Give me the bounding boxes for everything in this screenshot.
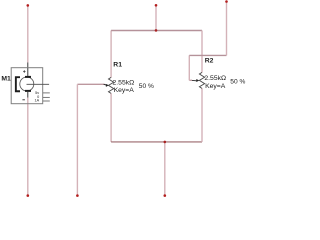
label R1 value 2.55k ohm <box>113 79 135 86</box>
endpoint dot at bottom stub <box>164 194 167 197</box>
M1 scale tick 2 <box>43 96 50 98</box>
svg-text:1A: 1A <box>35 98 40 102</box>
wire: right rail vertical up <box>226 2 228 56</box>
wire: main loop right edge lower (from R2 bottom) <box>201 88 203 142</box>
wire: R1 wiper vertical segment down <box>76 84 78 194</box>
wire: R2 wiper vertical up <box>188 55 190 80</box>
label R1 50 % <box>139 83 154 90</box>
wire: vertical feed to M1 plus terminal <box>27 5 29 62</box>
wire: vertical from M1 minus terminal down <box>27 98 29 195</box>
endpoint dot at top of M1 feed wire <box>27 4 30 7</box>
wire: R2 wiper horizontal lead <box>189 79 192 81</box>
wire: main loop right edge upper (to R2 top) <box>201 31 203 73</box>
svg-text:2.55kΩ: 2.55kΩ <box>113 79 135 86</box>
M1 bottom brush <box>25 90 31 92</box>
svg-text:Key=A: Key=A <box>114 87 135 94</box>
svg-text:2.55kΩ: 2.55kΩ <box>204 75 226 82</box>
wire: top stub from loop top edge <box>155 5 157 30</box>
M1 body box <box>11 68 43 104</box>
endpoint dot at top of right rail <box>225 0 228 3</box>
svg-text:50 %: 50 % <box>139 83 154 90</box>
M1 field bracket <box>16 77 20 91</box>
label R2 value 2.55k ohm <box>204 75 226 82</box>
wire: R1 wiper horizontal segment <box>77 83 104 85</box>
M1 plus sign <box>23 70 25 72</box>
R1 zigzag body <box>109 77 114 93</box>
endpoint dot at bottom of M1 wire <box>27 194 30 197</box>
wire: main loop top edge <box>111 30 202 32</box>
label M1 <box>1 76 11 83</box>
R1 wiper arrow lead <box>104 83 107 86</box>
endpoint dot at top stub <box>155 4 158 7</box>
svg-text:R1: R1 <box>113 62 122 69</box>
M1 scale tick 3 <box>43 100 50 102</box>
M1 top brush <box>25 76 31 78</box>
junction dot bottom edge <box>164 141 167 144</box>
M1 needle line <box>27 83 50 85</box>
wire: bottom stub from loop bottom edge <box>164 142 166 195</box>
potentiometer R2 <box>191 72 204 88</box>
R2 wiper arrow lead <box>191 79 196 82</box>
svg-text:M1: M1 <box>1 76 11 83</box>
meter M1 <box>11 63 50 104</box>
wire: main loop bottom edge <box>111 141 202 143</box>
M1 pin top (plus) <box>27 63 29 77</box>
wire: R2 wiper horizontal to right rail <box>189 54 226 56</box>
label R1 Key=A <box>114 87 135 94</box>
label R1 <box>113 62 122 69</box>
R2 wiper arrowhead <box>196 79 199 82</box>
potentiometer R1 <box>104 77 114 93</box>
svg-text:50 %: 50 % <box>230 79 245 86</box>
wire: main loop left edge upper (to R1 top) <box>110 31 112 78</box>
M1 scale tick 1 <box>43 92 50 94</box>
M1 pin bottom (minus) <box>27 92 29 98</box>
wire: main loop left edge lower (from R1 bottom) <box>110 93 112 142</box>
junction dot top edge <box>155 29 158 32</box>
label R2 50 % <box>230 79 245 86</box>
label R2 <box>205 58 214 65</box>
endpoint dot at bottom of R1 wiper wire <box>76 194 79 197</box>
M1 minus sign <box>22 99 25 101</box>
svg-text:R2: R2 <box>205 58 214 65</box>
R2 zigzag body <box>199 72 204 88</box>
svg-text:Key=A: Key=A <box>205 83 226 90</box>
R1 wiper arrowhead <box>106 84 109 87</box>
M1 armature circle <box>20 77 34 91</box>
label R2 Key=A <box>205 83 226 90</box>
